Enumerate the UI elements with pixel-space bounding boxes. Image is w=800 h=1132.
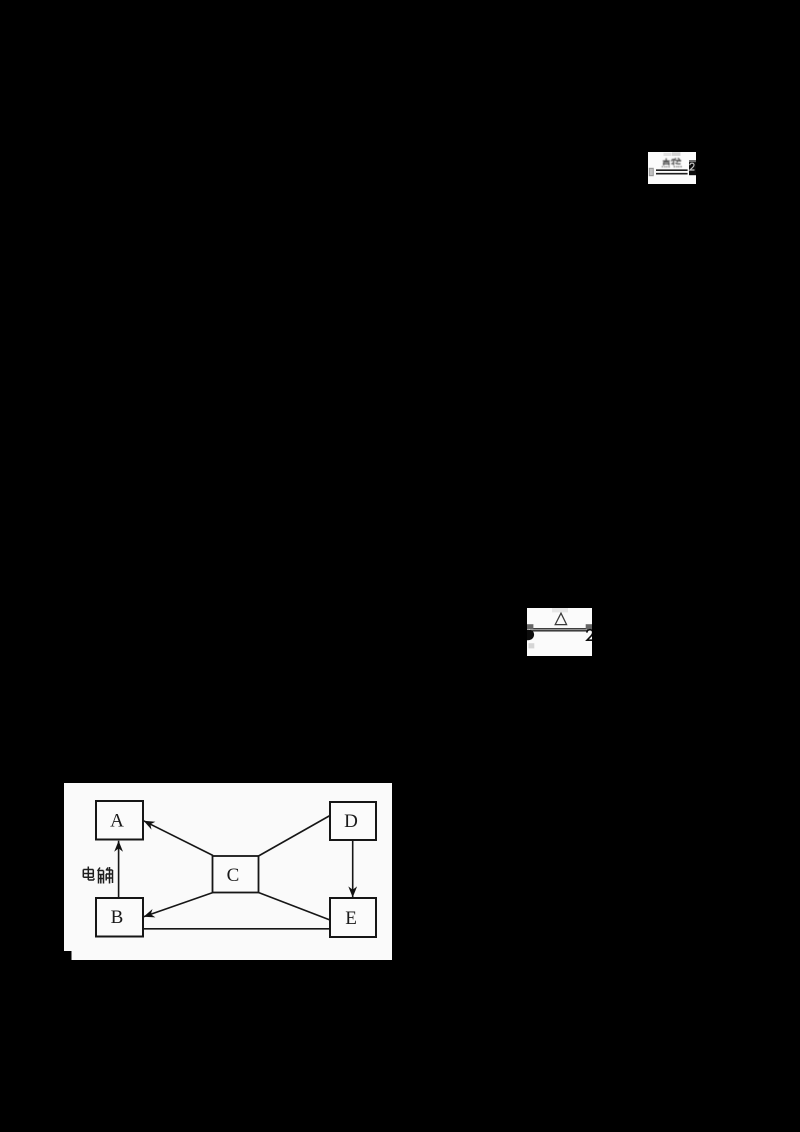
box B <box>96 898 143 937</box>
svg-text:B: B <box>111 907 124 928</box>
left black partial glyph <box>527 630 534 640</box>
label 点燃 (blurred gray) <box>662 158 681 167</box>
wire B to E bottom <box>143 928 330 930</box>
faint square lower left <box>529 643 535 648</box>
wire C to E <box>259 893 331 921</box>
arrow C to A <box>144 821 213 856</box>
fragment 3: flow diagram with boxes A B C D E <box>64 783 392 960</box>
svg-text:D: D <box>344 811 358 832</box>
box D <box>330 802 376 840</box>
white paper patch <box>648 152 696 184</box>
faint smudge top <box>664 153 672 156</box>
delta triangle <box>555 613 566 624</box>
right gray partial square <box>586 624 592 629</box>
fragment 2: heating equation (triangle over double line) <box>527 608 592 656</box>
arrow C to B <box>144 893 213 917</box>
left gray partial glyph <box>649 168 654 176</box>
svg-text:C: C <box>227 865 240 886</box>
equals double line <box>530 629 588 631</box>
box C <box>213 856 259 893</box>
box E <box>330 898 376 937</box>
left gray partial square <box>527 624 533 629</box>
svg-text:A: A <box>110 811 124 832</box>
white paper patch <box>64 783 392 960</box>
arrow D to E <box>352 840 354 897</box>
black notch bottom-left corner <box>64 951 72 961</box>
equals double line <box>656 170 688 174</box>
fragment 1: combustion equation (点燃 over double line) <box>648 152 696 184</box>
faint smudge top <box>552 608 568 612</box>
wire C to D <box>259 816 331 857</box>
right black partial 2 <box>587 630 593 641</box>
label 电解 (electrolysis) <box>83 867 112 884</box>
white paper patch <box>527 608 592 656</box>
svg-text:E: E <box>345 908 357 929</box>
box A <box>96 801 143 840</box>
arrow B to A <box>118 841 120 898</box>
right black mask with partial 2 <box>689 160 696 175</box>
